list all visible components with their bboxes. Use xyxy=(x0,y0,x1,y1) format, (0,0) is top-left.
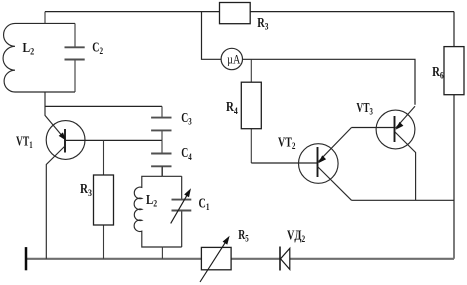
inductor L2 top coil xyxy=(3,23,75,92)
wire top bus xyxy=(45,11,454,13)
ground bar xyxy=(25,247,28,270)
transistor VT1 xyxy=(46,121,85,259)
wire VT1 base bus xyxy=(65,139,162,141)
capacitor C4 xyxy=(151,140,171,176)
wire VT2 collector to VT3 base xyxy=(352,127,395,129)
diode VD2 xyxy=(280,247,290,271)
capacitor C1 variable xyxy=(162,176,191,247)
capacitor C2 xyxy=(65,23,85,92)
wire VT2 emitter bus xyxy=(352,199,455,201)
inductor L2 bottom coil and tank frame xyxy=(134,176,162,247)
wire meter to VT3 collector xyxy=(243,59,416,105)
resistor R6 xyxy=(444,47,464,95)
resistor R3 left xyxy=(94,140,114,258)
transistor VT2 xyxy=(299,128,352,201)
resistor R4 xyxy=(241,59,261,163)
wire branch to C3 xyxy=(45,105,162,107)
meter uA xyxy=(221,48,242,69)
transistor VT3 xyxy=(376,106,416,200)
resistor R5 variable xyxy=(200,237,231,282)
wire R4 to VT2 base xyxy=(251,162,317,164)
node tank2 stubs xyxy=(161,166,163,258)
wire tank1 to VT1 collector xyxy=(45,92,65,140)
resistor R3 top xyxy=(220,3,251,24)
svg-text:µA: µA xyxy=(227,52,240,66)
node tank1 top stub xyxy=(44,12,46,24)
wire right bus xyxy=(453,12,455,259)
capacitor C3 xyxy=(151,106,171,140)
wire drop to meter xyxy=(202,12,222,60)
wire bottom bus xyxy=(26,258,454,260)
